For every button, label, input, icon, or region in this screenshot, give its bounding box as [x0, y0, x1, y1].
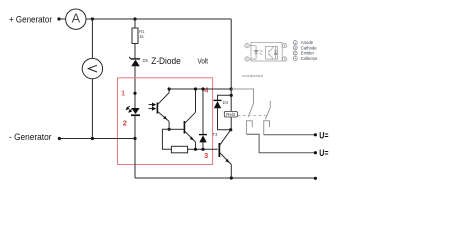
wire	[134, 116, 136, 138]
svg-text:Rel2: Rel2	[226, 112, 236, 117]
wire main vertical right	[230, 19, 232, 111]
relay contact 1 feed	[231, 89, 253, 104]
transistor T3	[219, 130, 232, 178]
wire	[59, 18, 66, 20]
svg-text:U=: U=	[319, 148, 329, 159]
internal diode (B-E)	[199, 89, 207, 149]
node diode bottom rail	[201, 148, 204, 151]
svg-text:- Generator: - Generator	[9, 132, 52, 142]
svg-text:T3: T3	[213, 132, 219, 137]
node PT collector rail	[168, 87, 171, 90]
voltmeter V	[82, 58, 102, 78]
node bottom rail T3	[230, 176, 233, 179]
optocoupler outline red box	[118, 78, 213, 165]
wire base loop	[162, 129, 171, 149]
wire	[91, 79, 93, 139]
svg-text:Collector: Collector	[301, 56, 318, 61]
contact 1 output wire	[247, 134, 316, 152]
wire minus rail	[59, 138, 135, 140]
node U= terminal 1	[314, 133, 317, 136]
contact 2 lever	[265, 108, 270, 120]
svg-text:+ Generator: + Generator	[9, 15, 52, 25]
wire	[134, 19, 136, 28]
legend pin circles	[245, 44, 287, 62]
wire top rail inside opto	[169, 88, 231, 90]
node V bottom junction	[91, 137, 94, 140]
wire coil to collector node	[230, 117, 232, 130]
node pin1	[133, 92, 136, 95]
svg-text:3: 3	[284, 57, 286, 61]
LED D (opto input)	[131, 108, 140, 116]
node T2 collector rail	[194, 87, 197, 90]
resistor R1	[132, 28, 145, 44]
legend pin name rows	[301, 40, 318, 61]
node rail-main junction	[230, 87, 233, 90]
relay coil Rel2	[224, 111, 237, 117]
node D4 top junction	[230, 94, 233, 97]
node input +	[57, 17, 60, 20]
wire	[188, 148, 218, 150]
svg-text:D4: D4	[223, 100, 229, 105]
wire D4 top branch	[218, 95, 232, 100]
svg-text:Emitter: Emitter	[301, 51, 315, 56]
LED emitter arrows	[126, 106, 132, 112]
transistor T2	[184, 89, 196, 149]
contact 2 fixed bracket	[264, 121, 270, 135]
node PT emitter junction	[168, 128, 171, 131]
mechanical link dashed	[238, 114, 267, 116]
svg-text:D5: D5	[143, 58, 149, 63]
wire	[91, 19, 93, 58]
wire bottom rail	[135, 177, 315, 179]
wire down from pin2	[134, 139, 136, 179]
wire	[134, 44, 136, 59]
svg-text:Volt: Volt	[198, 59, 209, 66]
svg-text:vwv-sdnaltplan-beispiel: vwv-sdnaltplan-beispiel	[242, 74, 264, 78]
wire D4 bottom branch	[218, 108, 231, 130]
node top junction V branch	[91, 17, 94, 20]
node R1 top	[133, 17, 136, 20]
svg-text:4: 4	[284, 44, 286, 48]
svg-text:2: 2	[123, 118, 127, 127]
wire base to T2	[169, 128, 184, 130]
node T2 emitter rail	[194, 148, 197, 151]
svg-text:U=: U=	[319, 130, 329, 141]
svg-text:2: 2	[246, 57, 248, 61]
svg-text:Anode: Anode	[301, 40, 314, 45]
svg-text:3: 3	[204, 151, 208, 160]
contact 2 feed	[269, 101, 271, 108]
node T3 collector	[229, 128, 232, 131]
wire	[86, 18, 231, 20]
phototransistor PT	[157, 89, 170, 129]
contact 1 lever	[248, 104, 253, 117]
svg-text:Z-Diode: Z-Diode	[151, 56, 181, 66]
svg-text:1: 1	[121, 89, 125, 98]
diode D4	[214, 100, 229, 108]
contact 2 output wire	[264, 134, 316, 136]
svg-text:A: A	[72, 10, 81, 25]
contact 1 fixed bracket	[247, 121, 253, 135]
svg-text:1: 1	[246, 44, 248, 48]
light arrows to phototransistor	[149, 103, 156, 110]
node diode top rail	[201, 87, 204, 90]
resistor R (opto internal)	[171, 146, 187, 153]
node pin2 junction	[133, 137, 136, 140]
zener diode D5	[129, 57, 148, 66]
ammeter A	[66, 9, 86, 29]
node U= terminal 2	[314, 151, 317, 154]
node input -	[58, 137, 61, 140]
wire	[134, 66, 136, 108]
legend opto package drawing	[248, 43, 284, 62]
node bottom rail end	[314, 177, 317, 180]
